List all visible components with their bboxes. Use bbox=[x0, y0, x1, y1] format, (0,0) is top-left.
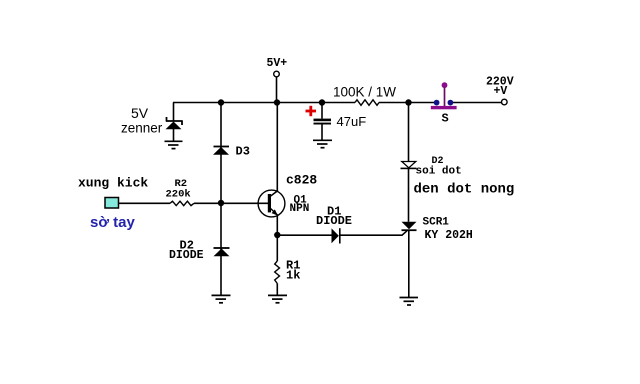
svg-text:xung kick: xung kick bbox=[78, 176, 148, 191]
terminal 5V+ circle bbox=[274, 71, 280, 77]
resistor 100K/1W zigzag in rail bbox=[355, 100, 379, 106]
ground under zener bbox=[165, 141, 183, 148]
svg-text:5V: 5V bbox=[131, 105, 149, 121]
capacitor C1 47uF plus sign bbox=[306, 106, 317, 116]
svg-text:D3: D3 bbox=[236, 145, 250, 159]
wire: rail from switch to 220V terminal bbox=[450, 102, 502, 104]
wire: SCR cathode to ground bbox=[408, 230, 410, 297]
wire: D1 to SCR gate bbox=[340, 231, 407, 235]
resistor R1 1k zigzag bbox=[275, 261, 280, 284]
svg-text:KY 202H: KY 202H bbox=[425, 229, 473, 242]
svg-text:c828: c828 bbox=[286, 173, 317, 188]
diode D3 bbox=[213, 147, 229, 155]
wire: zener bottom lead bbox=[173, 129, 175, 141]
svg-text:220k: 220k bbox=[166, 189, 191, 201]
diode D1 bbox=[332, 228, 340, 243]
node: rail/capacitor junction bbox=[319, 99, 325, 105]
wire: D2 branch lower vertical bbox=[220, 203, 222, 295]
wire: 5V+ terminal drop bbox=[276, 77, 278, 103]
resistor R2 220k zigzag bbox=[170, 201, 194, 205]
wire: cap bottom lead bbox=[321, 125, 323, 141]
node: base junction bbox=[218, 200, 224, 206]
node: emitter junction bbox=[274, 232, 280, 238]
wire: +5V rail left segment bbox=[173, 102, 355, 104]
node: rail/collector junction bbox=[274, 99, 280, 105]
capacitor 47uF plates bbox=[314, 119, 332, 125]
wire: rail from resistor to switch bbox=[379, 102, 437, 104]
connector pad (cyan box) bbox=[105, 198, 119, 209]
diode D2 (left) bbox=[214, 248, 230, 256]
wire: R1 top lead bbox=[276, 235, 278, 261]
wire: R1 bottom lead bbox=[276, 284, 278, 296]
svg-text:S: S bbox=[442, 112, 449, 126]
svg-text:SCR1: SCR1 bbox=[423, 217, 450, 229]
node: rail/SCR junction bbox=[405, 99, 411, 105]
terminal 220V +V circle bbox=[502, 99, 508, 105]
node: rail/zener-D3 junction bbox=[218, 99, 224, 105]
wire: zener top lead bbox=[173, 103, 175, 122]
diode D2 soi dot (outline) bbox=[401, 162, 417, 169]
ground under D2 bbox=[212, 295, 231, 302]
switch S pushbutton bbox=[431, 82, 457, 109]
wire: collector to rail bbox=[276, 103, 278, 192]
wire: emitter down to node bbox=[276, 215, 278, 235]
ground under capacitor bbox=[313, 140, 332, 147]
SCR1 KY202H bbox=[402, 222, 417, 230]
svg-text:soi dot: soi dot bbox=[416, 166, 462, 178]
wire: emitter node to D1 bbox=[277, 234, 331, 236]
svg-text:zenner: zenner bbox=[121, 121, 163, 136]
svg-text:+V: +V bbox=[494, 85, 508, 98]
svg-text:DIODE: DIODE bbox=[316, 214, 352, 228]
wire: base wire from R2 to transistor bbox=[194, 202, 269, 204]
svg-text:1k: 1k bbox=[286, 269, 300, 283]
wire: SCR branch from rail to D2 soi dot bbox=[408, 103, 410, 162]
wire: D3/D2 vertical branch upper bbox=[220, 103, 222, 204]
zener diode ZD 5V bbox=[166, 117, 183, 129]
svg-text:5V+: 5V+ bbox=[267, 57, 288, 70]
transistor Q1 c828 bbox=[258, 190, 285, 217]
ground under R1 bbox=[268, 295, 287, 302]
svg-text:NPN: NPN bbox=[290, 203, 310, 215]
svg-text:47uF: 47uF bbox=[337, 114, 367, 129]
svg-text:DIODE: DIODE bbox=[169, 249, 204, 262]
svg-text:sờ tay: sờ tay bbox=[90, 214, 136, 231]
svg-text:100K / 1W: 100K / 1W bbox=[333, 85, 396, 100]
svg-text:den dot nong: den dot nong bbox=[414, 182, 515, 198]
ground under SCR bbox=[400, 298, 419, 306]
wire: soi dot to SCR bbox=[408, 168, 410, 221]
wire: base wire from pad to R2 bbox=[119, 202, 171, 204]
wire: cap top lead bbox=[321, 103, 323, 119]
